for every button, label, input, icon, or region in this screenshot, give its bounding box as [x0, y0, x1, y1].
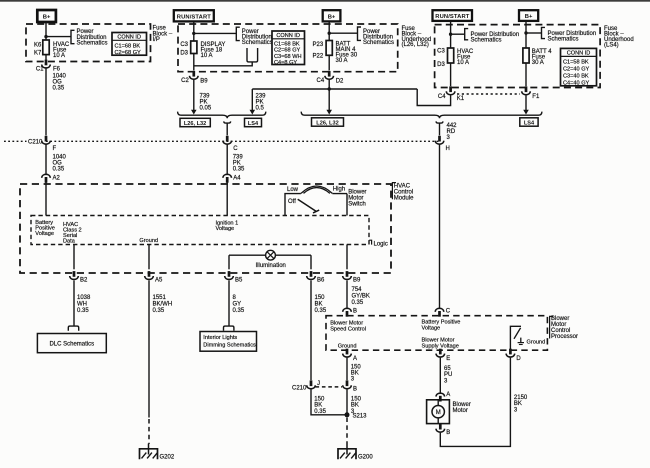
svg-text:C4=8 GY: C4=8 GY: [274, 60, 297, 66]
svg-text:Motor: Motor: [453, 408, 468, 414]
svg-text:C210: C210: [28, 140, 43, 146]
svg-text:High: High: [333, 187, 345, 193]
svg-text:C210: C210: [292, 385, 307, 391]
svg-text:C4=40 GY: C4=40 GY: [563, 80, 590, 86]
svg-text:Schematics: Schematics: [471, 38, 502, 44]
svg-text:BK/WH: BK/WH: [153, 302, 173, 308]
svg-text:0.35: 0.35: [315, 308, 327, 314]
svg-text:BK: BK: [315, 302, 323, 308]
svg-text:C1=68 BK: C1=68 BK: [274, 41, 300, 47]
svg-text:0.35: 0.35: [153, 308, 165, 314]
svg-text:Off: Off: [288, 199, 296, 205]
svg-text:(L26, L32): (L26, L32): [402, 42, 429, 48]
svg-text:150: 150: [351, 364, 362, 370]
svg-text:150: 150: [315, 295, 326, 301]
svg-text:30 A: 30 A: [532, 60, 544, 66]
svg-text:B9: B9: [200, 79, 208, 85]
svg-text:B: B: [353, 386, 357, 392]
svg-text:10 A: 10 A: [53, 53, 65, 59]
svg-text:65: 65: [444, 366, 451, 372]
svg-text:Voltage: Voltage: [216, 226, 235, 232]
svg-text:Voltage: Voltage: [422, 326, 441, 332]
svg-text:Low: Low: [287, 187, 299, 193]
svg-text:Ground: Ground: [139, 238, 158, 244]
svg-text:B+: B+: [43, 15, 51, 21]
svg-text:B: B: [353, 308, 357, 314]
svg-text:754: 754: [352, 287, 363, 293]
svg-text:LS4: LS4: [248, 121, 259, 127]
svg-text:Supply Voltage: Supply Voltage: [422, 343, 459, 349]
svg-text:10 A: 10 A: [457, 60, 469, 66]
svg-text:C2=68 GY: C2=68 GY: [115, 50, 142, 56]
svg-text:B: B: [446, 430, 450, 436]
svg-text:Data: Data: [63, 239, 76, 245]
svg-text:DLC Schematics: DLC Schematics: [49, 342, 94, 348]
svg-text:BK: BK: [351, 371, 359, 377]
svg-text:M: M: [436, 410, 441, 416]
svg-text:C3=40 BK: C3=40 BK: [563, 74, 589, 80]
svg-text:Interior Lights: Interior Lights: [203, 335, 237, 341]
svg-text:150: 150: [314, 397, 325, 403]
svg-text:G202: G202: [160, 454, 175, 460]
svg-text:S213: S213: [353, 414, 368, 420]
svg-text:C4: C4: [317, 78, 325, 84]
svg-text:CONN ID: CONN ID: [117, 35, 141, 41]
svg-text:C1: C1: [36, 66, 44, 72]
svg-text:E: E: [446, 356, 450, 362]
svg-text:PU: PU: [444, 372, 452, 378]
svg-text:K6: K6: [34, 42, 42, 48]
svg-text:A2: A2: [53, 175, 61, 181]
svg-text:P23: P23: [313, 42, 324, 48]
svg-text:Dimming Schematics: Dimming Schematics: [203, 342, 256, 348]
svg-text:CONN ID: CONN ID: [276, 33, 300, 39]
svg-text:B6: B6: [317, 277, 325, 283]
svg-text:L26, L32: L26, L32: [316, 120, 338, 126]
svg-text:D3: D3: [437, 62, 445, 68]
svg-text:Schematics: Schematics: [242, 40, 273, 46]
svg-text:C: C: [446, 308, 451, 314]
svg-text:F6: F6: [53, 67, 61, 73]
svg-text:C2=40 GY: C2=40 GY: [563, 67, 590, 73]
svg-text:F: F: [53, 146, 57, 152]
svg-text:10 A: 10 A: [201, 53, 213, 59]
svg-text:H: H: [446, 146, 450, 152]
svg-text:L26, L32: L26, L32: [184, 121, 206, 127]
svg-text:(LS4): (LS4): [604, 43, 619, 49]
svg-text:A5: A5: [155, 277, 163, 283]
svg-text:C2=68 GY: C2=68 GY: [274, 48, 301, 54]
svg-text:I/P: I/P: [153, 37, 160, 43]
svg-text:C1=68 BK: C1=68 BK: [115, 43, 141, 49]
svg-text:B+: B+: [328, 14, 336, 20]
svg-text:B9: B9: [353, 277, 361, 283]
svg-text:B+: B+: [525, 14, 533, 20]
svg-text:J: J: [317, 381, 320, 387]
svg-text:CONN ID: CONN ID: [567, 51, 591, 57]
svg-text:1551: 1551: [153, 295, 167, 301]
svg-text:Ground: Ground: [527, 339, 546, 345]
svg-text:0.35: 0.35: [53, 86, 65, 92]
svg-text:Blower: Blower: [453, 402, 471, 408]
svg-text:D2: D2: [336, 79, 344, 85]
svg-text:BK: BK: [514, 401, 522, 407]
svg-text:C2: C2: [181, 78, 189, 84]
svg-text:C1=58 BK: C1=58 BK: [563, 60, 589, 66]
svg-text:0.35: 0.35: [77, 308, 89, 314]
svg-text:C3: C3: [180, 42, 188, 48]
svg-text:LS4: LS4: [524, 120, 535, 126]
svg-text:1038: 1038: [77, 295, 91, 301]
svg-text:150: 150: [351, 397, 362, 403]
svg-text:Schematics: Schematics: [548, 36, 579, 42]
svg-text:Illumination: Illumination: [256, 263, 286, 269]
svg-text:30 A: 30 A: [336, 58, 348, 64]
svg-text:0.5: 0.5: [256, 106, 265, 112]
svg-text:GY: GY: [233, 302, 242, 308]
svg-text:K7: K7: [34, 51, 42, 57]
svg-text:K1: K1: [457, 96, 465, 102]
svg-text:0.35: 0.35: [352, 300, 364, 306]
svg-text:0.35: 0.35: [53, 167, 65, 173]
svg-text:A: A: [446, 392, 450, 398]
svg-text:Processor: Processor: [551, 334, 578, 340]
svg-text:Ground: Ground: [338, 343, 357, 349]
svg-text:0.35: 0.35: [314, 409, 326, 415]
svg-text:2150: 2150: [514, 395, 528, 401]
svg-text:GY/BK: GY/BK: [352, 294, 370, 300]
svg-text:B2: B2: [80, 277, 88, 283]
svg-text:P22: P22: [313, 53, 324, 59]
svg-text:A4: A4: [233, 175, 241, 181]
svg-text:BK: BK: [314, 403, 322, 409]
svg-text:RUN/START: RUN/START: [177, 14, 211, 20]
svg-text:0.05: 0.05: [200, 106, 212, 112]
svg-text:D: D: [516, 356, 521, 362]
svg-text:F1: F1: [532, 94, 540, 100]
svg-text:Schematics: Schematics: [363, 40, 394, 46]
svg-text:Schematics: Schematics: [77, 40, 108, 46]
svg-text:Logic: Logic: [374, 241, 388, 247]
svg-text:0.35: 0.35: [233, 308, 245, 314]
svg-text:0.35: 0.35: [233, 167, 245, 173]
svg-text:D3: D3: [180, 51, 188, 57]
svg-text:C3: C3: [437, 49, 445, 55]
svg-text:Switch: Switch: [348, 202, 366, 208]
svg-text:RUN/START: RUN/START: [435, 14, 469, 20]
svg-text:Speed Control: Speed Control: [330, 326, 366, 332]
svg-text:G200: G200: [358, 454, 373, 460]
svg-text:C4: C4: [438, 94, 446, 100]
svg-text:A: A: [353, 356, 357, 362]
svg-text:Module: Module: [394, 196, 414, 202]
svg-text:BK: BK: [351, 403, 359, 409]
svg-text:WH: WH: [77, 302, 87, 308]
svg-text:B5: B5: [235, 277, 243, 283]
svg-text:C: C: [233, 146, 238, 152]
svg-text:Voltage: Voltage: [35, 231, 54, 237]
